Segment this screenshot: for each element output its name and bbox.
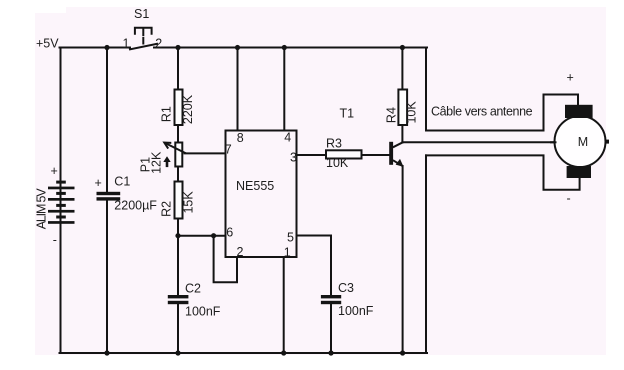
transistor T1 collector diagonal [393, 142, 403, 147]
svg-text:1: 1 [284, 246, 291, 260]
junction C1 top rail [104, 45, 109, 50]
svg-text:220K: 220K [181, 94, 195, 124]
wire C1 branch upper [106, 48, 108, 193]
junction R4 top rail [400, 45, 405, 50]
svg-text:C1: C1 [114, 175, 130, 189]
svg-text:S1: S1 [134, 7, 149, 21]
junction pin4 top rail [282, 45, 287, 50]
capacitor C1 plates [97, 192, 121, 195]
wire R3 to base T1 [362, 154, 390, 156]
wire pin3 to R3 [297, 154, 327, 156]
svg-text:8: 8 [237, 131, 244, 145]
junction pin8 top rail [235, 45, 240, 50]
battery B1 cells [48, 181, 75, 224]
svg-text:4: 4 [284, 131, 291, 145]
wire R1 top [177, 48, 179, 90]
svg-text:NE555: NE555 [236, 179, 274, 193]
svg-text:T1: T1 [340, 107, 355, 121]
svg-text:M: M [578, 135, 588, 149]
junction node A pin2 loop [211, 233, 216, 238]
wire battery vertical [60, 48, 62, 354]
svg-text:R1: R1 [159, 106, 173, 122]
capacitor C3 plates [321, 295, 341, 298]
resistor R1 [175, 90, 183, 126]
junction pin1 bottom rail [281, 350, 286, 355]
wire pin2 loop [214, 236, 237, 283]
svg-text:2: 2 [237, 245, 244, 259]
svg-text:15K: 15K [182, 191, 196, 214]
wire pin5 to C3 [297, 236, 332, 296]
wire R1 to P1 [177, 125, 179, 143]
junction R1 top rail [175, 45, 180, 50]
switch S1 blade [130, 44, 157, 50]
svg-text:3: 3 [290, 151, 297, 165]
switch S1 actuator bracket [135, 28, 152, 34]
svg-text:100nF: 100nF [338, 304, 374, 318]
svg-text:5: 5 [287, 230, 294, 244]
svg-text:+: + [95, 176, 102, 190]
wire pin4 to rail [283, 48, 285, 131]
wire pin1 to ground rail [283, 257, 285, 353]
junction emitter bottom rail [400, 350, 405, 355]
motor M bottom brush [567, 166, 591, 178]
transistor T1 emitter diagonal [393, 160, 403, 166]
resistor R3 [326, 150, 362, 158]
junction C2 bottom rail [175, 350, 180, 355]
svg-text:C3: C3 [338, 281, 354, 295]
svg-text:10K: 10K [326, 156, 349, 170]
wire +5V top rail right segment [154, 47, 427, 49]
junction C1 bottom rail [104, 350, 109, 355]
potentiometer P1 body [175, 143, 182, 167]
svg-text:C2: C2 [185, 282, 201, 296]
wire emitter to ground rail [402, 166, 404, 353]
svg-text:+: + [51, 164, 58, 178]
wire C2 to ground rail [177, 304, 179, 353]
svg-text:100nF: 100nF [185, 305, 221, 319]
transistor Q1 T1 base bar [389, 142, 393, 165]
wire R4 to collector [401, 125, 403, 143]
svg-text:-: - [567, 192, 571, 206]
wire motor return drop to ground rail [425, 155, 427, 353]
P1 adjustment bold arrow [163, 156, 170, 167]
junction node A R2-C2 [175, 233, 180, 238]
junction C3 bottom rail [328, 350, 333, 355]
wire node A pin6 horizontal [177, 235, 226, 237]
svg-text:R2: R2 [160, 201, 174, 217]
motor M body [555, 116, 606, 167]
resistor R4 [398, 90, 407, 126]
svg-text:R4: R4 [384, 107, 398, 123]
capacitor C2 plates [168, 295, 189, 298]
svg-text:2200µF: 2200µF [114, 199, 157, 213]
switch S1 stem [142, 29, 144, 36]
potentiometer P1 wiper arrow [164, 143, 186, 154]
wire C3 to ground rail [330, 304, 332, 353]
wire pin8 to rail [237, 48, 239, 131]
svg-text:1: 1 [123, 36, 130, 50]
svg-text:10K: 10K [405, 101, 419, 124]
wire P1 to R2 [177, 167, 179, 182]
resistor R2 [175, 182, 183, 219]
IC U1 NE555 box [226, 131, 297, 258]
svg-text:7: 7 [225, 142, 232, 156]
background white notch top-left [35, 7, 66, 13]
svg-text:-: - [53, 233, 57, 247]
svg-text:6: 6 [226, 225, 233, 239]
svg-text:Câble vers antenne: Câble vers antenne [431, 105, 533, 119]
wire antenna cable from +5V to motor plus [426, 48, 578, 131]
svg-text:+: + [567, 71, 574, 85]
wire C1 branch lower [106, 200, 108, 353]
wire ground bottom rail [60, 352, 428, 354]
motor M left terminal stub [550, 141, 557, 143]
wire R2 to C2 [177, 219, 179, 296]
transistor T1 emitter arrowhead [396, 159, 404, 167]
svg-text:+5V: +5V [36, 36, 59, 50]
wire collector to motor [402, 141, 554, 143]
svg-text:12K: 12K [150, 151, 164, 174]
svg-text:R3: R3 [326, 137, 342, 151]
motor M top brush [565, 105, 593, 118]
wire motor minus return horizontal [426, 155, 580, 189]
svg-text:ALIM 5V: ALIM 5V [34, 188, 48, 230]
wire R4 top [401, 48, 403, 90]
motor M right terminal tick [605, 140, 610, 144]
svg-text:2: 2 [155, 36, 162, 50]
wire +5V top rail left segment [60, 47, 131, 49]
wire pin7 to P1 wiper [185, 152, 227, 154]
